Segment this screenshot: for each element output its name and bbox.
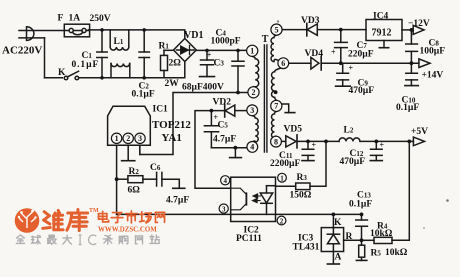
svg-text:VD4: VD4 [305,49,324,59]
svg-text:3: 3 [138,134,142,143]
svg-text:+5V: +5V [411,127,428,137]
svg-text:PC111: PC111 [236,234,262,244]
svg-text:5: 5 [275,25,279,34]
svg-text:0.1µF: 0.1µF [349,200,372,210]
svg-text:IC4: IC4 [373,12,389,22]
svg-text:0.1µF: 0.1µF [396,103,419,113]
svg-text:YA1: YA1 [162,132,182,144]
svg-text:2W: 2W [165,79,180,89]
svg-text:470µF: 470µF [340,157,366,167]
svg-text:A: A [335,253,342,263]
svg-text:2Ω: 2Ω [169,59,182,69]
svg-text:6: 6 [281,59,285,68]
svg-text:TL431: TL431 [293,243,320,253]
svg-text:2: 2 [280,217,284,225]
svg-text:R2: R2 [129,167,140,177]
svg-text:AC220V: AC220V [2,45,42,57]
svg-text:4: 4 [250,143,254,152]
svg-text:+: + [207,51,212,60]
svg-text:4: 4 [223,177,227,185]
svg-text:10kΩ: 10kΩ [385,248,408,258]
svg-text:250V: 250V [90,14,111,24]
svg-text:+: + [331,48,336,57]
svg-text:2200µF: 2200µF [270,159,300,169]
svg-text:WWW.DZSC.COM: WWW.DZSC.COM [98,226,157,233]
svg-text:2: 2 [126,134,130,143]
svg-text:VD2: VD2 [213,98,232,108]
svg-text:1: 1 [250,47,254,56]
svg-text:100µF: 100µF [420,47,446,57]
svg-text:1A: 1A [69,14,81,24]
svg-text:1: 1 [280,175,284,183]
svg-text:VD1: VD1 [184,30,203,41]
svg-text:1000pF: 1000pF [211,37,241,47]
svg-text:TM: TM [89,208,99,214]
svg-text:K: K [58,68,66,78]
svg-text:C5: C5 [218,121,229,131]
svg-text:3: 3 [250,106,254,115]
svg-text:C3: C3 [214,59,225,69]
svg-text:0.1µF: 0.1µF [72,60,100,70]
svg-text:VD3: VD3 [301,16,320,26]
svg-text:IC1: IC1 [153,105,169,115]
svg-text:R: R [346,232,353,242]
svg-text:L1: L1 [114,37,124,47]
svg-text:4.7µF: 4.7µF [213,135,236,145]
svg-text:7: 7 [274,102,278,111]
svg-text:8: 8 [274,137,278,146]
svg-text:R1: R1 [159,42,170,52]
svg-text:R5: R5 [371,249,382,259]
svg-text:150Ω: 150Ω [290,191,312,201]
svg-text:−12V: −12V [408,19,430,29]
svg-text:1: 1 [115,134,119,143]
svg-text:2: 2 [252,88,256,97]
svg-text:68µF400V: 68µF400V [182,83,224,93]
svg-text:4.7µF: 4.7µF [166,196,189,206]
svg-text:6Ω: 6Ω [128,186,141,196]
svg-text:220µF: 220µF [348,50,374,60]
svg-text:+14V: +14V [422,71,444,81]
svg-text:TOP212: TOP212 [152,119,191,131]
svg-text:+: + [380,141,385,150]
svg-text:F: F [58,14,64,24]
svg-text:R3: R3 [297,173,308,183]
svg-text:K: K [334,218,342,228]
svg-text:0.1µF: 0.1µF [132,90,155,100]
svg-text:10kΩ: 10kΩ [370,229,393,239]
svg-text:3: 3 [222,205,226,213]
svg-text:VD5: VD5 [284,125,303,135]
svg-text:L2: L2 [344,126,354,136]
svg-text:470µF: 470µF [349,86,375,96]
svg-text:+: + [312,141,317,150]
svg-text:C6: C6 [150,163,161,173]
svg-text:+: + [349,64,354,73]
svg-text:T: T [262,34,269,45]
svg-text:7912: 7912 [372,28,392,39]
